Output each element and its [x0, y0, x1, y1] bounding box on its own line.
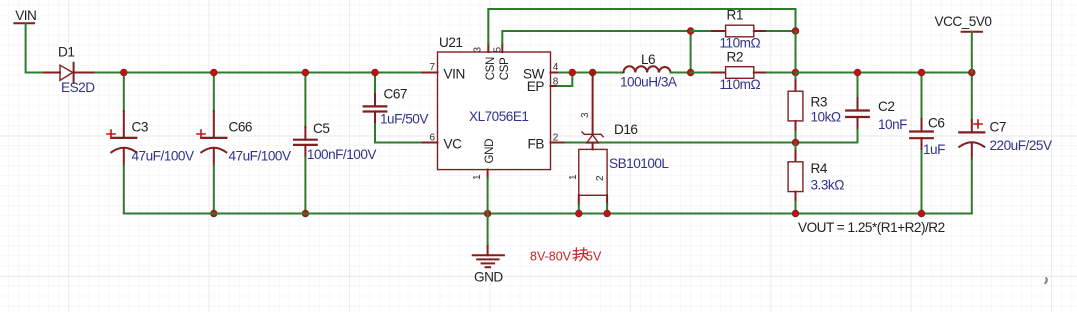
value 110mohm — [720, 36, 761, 51]
op-amp U21 body — [438, 52, 551, 170]
svg-text:CSN: CSN — [484, 57, 497, 80]
svg-text:C3: C3 — [132, 120, 148, 135]
pin 8 EP stub — [551, 85, 559, 87]
value 10nF — [878, 117, 907, 132]
pin number 7 — [429, 62, 435, 73]
svg-text:6: 6 — [429, 132, 435, 143]
svg-text:1: 1 — [568, 174, 579, 180]
capacitor C7 — [959, 73, 984, 214]
svg-text:2: 2 — [553, 132, 559, 143]
junction SW/EP — [569, 69, 576, 76]
diode D1 — [44, 63, 95, 83]
net VCC_5V0 label — [935, 14, 993, 29]
value 220uF/25V — [990, 138, 1052, 153]
pin number 2 — [553, 132, 559, 143]
pin name CSP — [498, 57, 511, 80]
junction C5 bottom — [302, 210, 309, 217]
label R3 — [811, 95, 827, 110]
svg-text:100uH/3A: 100uH/3A — [620, 75, 678, 90]
wire SW node to L6 — [566, 72, 624, 74]
label GND — [474, 270, 503, 285]
pin name VC — [444, 137, 463, 152]
junction SW/D16 — [589, 69, 596, 76]
svg-text:1uF: 1uF — [923, 142, 945, 157]
svg-text:7: 7 — [429, 62, 435, 73]
svg-text:47uF/100V: 47uF/100V — [132, 149, 194, 164]
capacitor C66 — [197, 73, 226, 214]
svg-text:110mΩ: 110mΩ — [720, 77, 761, 92]
pin number 8 — [553, 76, 559, 87]
svg-text:220uF/25V: 220uF/25V — [990, 138, 1052, 153]
pin 4 SW stub — [551, 72, 560, 74]
label C3 — [132, 120, 148, 135]
svg-text:47uF/100V: 47uF/100V — [229, 149, 291, 164]
svg-text:D16: D16 — [614, 122, 637, 137]
wire CSN to R1 right — [488, 9, 795, 44]
svg-text:R3: R3 — [811, 95, 827, 110]
pin 3 CSN stub — [487, 44, 489, 52]
junction R4 bottom — [792, 210, 799, 217]
net VIN port bar — [14, 22, 34, 24]
value XL7056E1 — [469, 109, 529, 124]
svg-text:VIN: VIN — [15, 8, 36, 23]
resistor R4 — [788, 143, 803, 214]
pin number 3 D16 — [580, 112, 591, 118]
label U21 — [439, 35, 462, 50]
label D16 — [614, 122, 637, 137]
svg-text:XL7056E1: XL7056E1 — [469, 109, 529, 124]
svg-text:3: 3 — [473, 47, 484, 53]
junction C6 bottom — [918, 210, 925, 217]
svg-text:10nF: 10nF — [878, 117, 907, 132]
value 100uH/3A — [620, 75, 678, 90]
svg-text:5: 5 — [492, 47, 503, 53]
svg-text:1: 1 — [472, 174, 483, 180]
label D1 — [58, 45, 74, 60]
pin name GND (rotated) — [483, 139, 496, 164]
svg-text:C67: C67 — [384, 87, 407, 102]
svg-text:VC: VC — [444, 137, 463, 152]
pin number 1 D16 — [568, 174, 579, 180]
label C2 — [878, 99, 894, 114]
pin 7 VIN stub — [423, 72, 438, 74]
value 1uF — [923, 142, 945, 157]
wire main rail D1 to U21 pin7 — [95, 72, 422, 74]
label L6 — [641, 52, 655, 67]
svg-text:VIN: VIN — [444, 66, 465, 81]
wire EP riser — [558, 73, 572, 87]
capacitor C3 — [107, 73, 136, 214]
svg-text:8V-80V: 8V-80V — [530, 250, 572, 264]
note VOUT formula — [798, 220, 945, 235]
pin number 5 — [492, 47, 503, 53]
pin number 2 D16 — [595, 175, 606, 181]
pin number 4 — [553, 62, 559, 73]
junction D16 pin2 — [604, 210, 611, 217]
pin 1 GND stub — [487, 170, 489, 178]
svg-text:2: 2 — [595, 175, 606, 181]
net VIN port label — [15, 8, 36, 23]
svg-text:VCC_5V0: VCC_5V0 — [935, 14, 993, 29]
junction CSP/R1 left — [687, 28, 694, 35]
label R2 — [727, 50, 743, 65]
pin 2 FB stub — [551, 142, 566, 144]
pin name CSN — [484, 57, 497, 80]
value SB10100L — [609, 156, 669, 171]
label C67 — [384, 87, 407, 102]
junction R2 right — [792, 69, 799, 76]
svg-text:FB: FB — [528, 137, 545, 152]
junction C6 top — [918, 69, 925, 76]
svg-text:ES2D: ES2D — [61, 80, 95, 95]
svg-text:110mΩ: 110mΩ — [720, 36, 761, 51]
svg-text:3: 3 — [580, 112, 591, 118]
capacitor C67 — [364, 73, 423, 143]
junction C66 bottom — [211, 210, 218, 217]
junction L6 out — [687, 69, 694, 76]
wire VIN vertical+to D1 — [26, 23, 44, 72]
svg-text:CSP: CSP — [498, 57, 511, 80]
pin name SW — [523, 66, 545, 81]
wire GND symbol lead — [487, 214, 489, 247]
inductor L6 — [624, 66, 671, 72]
capacitor C5 — [294, 73, 317, 214]
value 100nF/100V — [307, 147, 377, 162]
svg-text:C66: C66 — [229, 120, 252, 135]
capacitor C2 — [846, 73, 869, 143]
value 47uF/100V — [229, 149, 291, 164]
svg-text:R2: R2 — [727, 50, 743, 65]
junction D16 pin1 — [576, 210, 583, 217]
hand-drawn CJK zhuan glyph — [573, 248, 587, 261]
svg-text:5V: 5V — [586, 250, 602, 264]
wire bottom ground rail — [124, 213, 972, 215]
svg-text:C5: C5 — [313, 121, 329, 136]
pin name VIN — [444, 66, 465, 81]
junction C2 top — [854, 69, 861, 76]
label C5 — [313, 121, 329, 136]
label C66 — [229, 120, 252, 135]
svg-text:10kΩ: 10kΩ — [811, 110, 841, 125]
junction C7 top / VCC — [969, 69, 976, 76]
svg-text:U21: U21 — [439, 35, 462, 50]
label C7 — [990, 120, 1006, 135]
label R1 — [727, 8, 743, 23]
svg-text:R1: R1 — [727, 8, 743, 23]
value 10k — [811, 110, 841, 125]
svg-text:C7: C7 — [990, 120, 1006, 135]
svg-text:EP: EP — [527, 79, 545, 94]
svg-text:GND: GND — [474, 270, 503, 285]
net VCC_5V0 bar — [962, 31, 982, 33]
label R4 — [811, 161, 828, 176]
junction C3 top — [121, 69, 128, 76]
svg-text:D1: D1 — [58, 45, 74, 60]
diode D16 — [579, 73, 607, 214]
stray cursor artifact — [1045, 278, 1046, 283]
svg-text:GND: GND — [483, 139, 496, 164]
svg-text:3.3kΩ: 3.3kΩ — [811, 178, 845, 193]
junction C67 top — [372, 69, 379, 76]
svg-text:C2: C2 — [878, 99, 894, 114]
resistor R2 — [691, 67, 796, 79]
pin name FB — [528, 137, 545, 152]
junction GND tap — [484, 210, 491, 217]
svg-text:100nF/100V: 100nF/100V — [307, 147, 377, 162]
pin number 1 — [472, 174, 483, 180]
wire GND drop — [487, 178, 489, 214]
value 47uF/100V — [132, 149, 194, 164]
pin 6 VC stub — [423, 142, 438, 144]
value 110mohm — [720, 77, 761, 92]
value 3.3k — [811, 178, 845, 193]
pin number 6 — [429, 132, 435, 143]
label C6 — [928, 116, 944, 131]
resistor R1 — [691, 25, 796, 37]
svg-text:1uF/50V: 1uF/50V — [380, 112, 428, 127]
svg-text:L6: L6 — [641, 52, 655, 67]
pin number 3 — [473, 47, 484, 53]
ground symbol — [473, 246, 504, 267]
svg-text:4: 4 — [553, 62, 559, 73]
value 1uF/50V — [380, 112, 428, 127]
pin 5 CSP stub — [501, 44, 503, 52]
value ES2D — [61, 80, 95, 95]
wire L6 to node — [671, 72, 691, 74]
pin name EP — [527, 79, 545, 94]
svg-text:VOUT = 1.25*(R1+R2)/R2: VOUT = 1.25*(R1+R2)/R2 — [798, 220, 945, 235]
resistor R3 — [788, 73, 803, 143]
junction C66 top — [211, 69, 218, 76]
junction R1 right — [792, 28, 799, 35]
wire output rail right — [796, 72, 972, 74]
junction R3 bottom — [792, 139, 799, 146]
svg-text:R4: R4 — [811, 161, 828, 176]
junction C5 top — [302, 69, 309, 76]
capacitor C6 — [910, 73, 933, 214]
wire CSP to R1 left — [502, 31, 690, 44]
wire R1R2 right vertical — [795, 31, 797, 73]
wire FB to C2 bottom — [566, 142, 858, 144]
svg-text:SB10100L: SB10100L — [609, 156, 669, 171]
svg-text:C6: C6 — [928, 116, 944, 131]
wire VCC drop — [971, 32, 973, 73]
note 8V-80V to 5V (red) — [530, 248, 602, 264]
wire R1 left down to L6 node — [690, 31, 692, 73]
